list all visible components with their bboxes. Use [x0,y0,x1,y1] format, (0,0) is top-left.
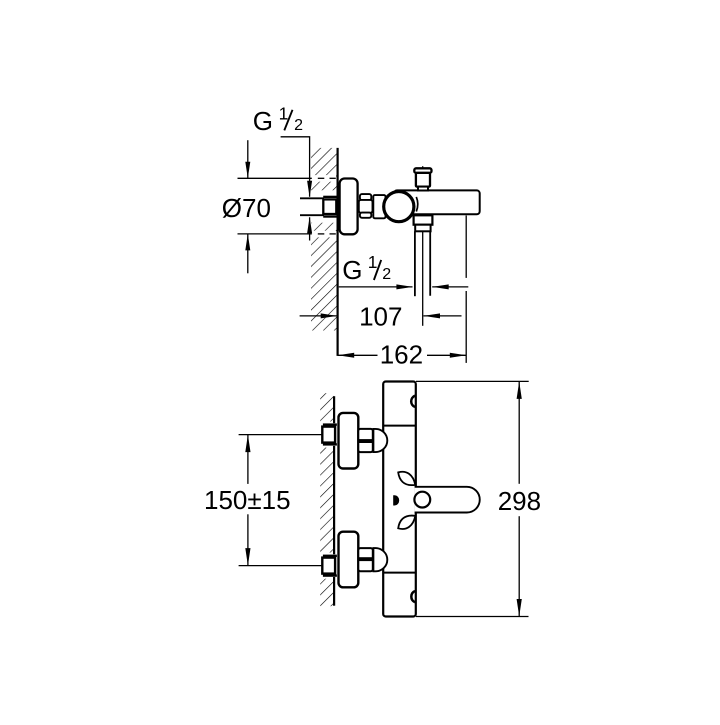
dimension 298 extension lines [416,380,529,382]
hex nut [358,429,373,452]
dimension 107 [300,315,337,317]
handle hub wing upper [398,472,415,485]
svg-text:298: 298 [498,486,541,516]
svg-text:G: G [253,106,273,136]
union flange bottom [323,215,337,217]
body collar arc detail [416,197,418,212]
svg-text:150±15: 150±15 [204,485,291,515]
union nut square (side view) [323,199,336,214]
lever button circle [414,492,430,508]
svg-text:1: 1 [279,103,289,123]
bottom cap screw arc [411,591,415,602]
hatch clearance around supply pipe [300,190,337,222]
diverter knob tick [422,166,424,168]
dimension Ø70 line with arrows [247,140,249,273]
hatch clearance around top union [319,422,337,448]
hatch clearance around lower extension line [311,231,336,238]
shower outlet nipple [415,225,430,232]
union flanges [323,423,337,425]
wall face line [337,148,339,356]
supply pipe (side view) [300,197,324,199]
thermostat handle (circle) [384,192,414,222]
dimension 298 line [518,382,520,484]
hose centre extension line [422,231,424,325]
wall hatching (front view) [320,393,333,606]
check valve dome [373,429,387,452]
faucet body (front view) [383,382,416,617]
hatch clearance around bottom union [319,553,337,579]
wall face line (front view) [333,396,335,606]
dimension 150±15 extension lines [239,434,323,436]
collar behind thermostat handle [373,195,385,218]
hex connection nut (side view) [359,194,373,218]
top cap screw arc [411,396,415,407]
union square [322,427,335,443]
diverter knob cap [414,168,431,173]
handle hub wing lower [398,516,415,529]
dimension Ø70 extension line bottom (dash-dot through wall) [238,233,336,235]
svg-text:162: 162 [380,340,423,370]
dimension Ø70 extension line top (dash-dot through wall) [238,177,336,179]
svg-text:Ø70: Ø70 [222,193,271,223]
svg-text:1: 1 [368,252,378,272]
bottom supply union (front view, mirrored) [322,532,387,588]
diverter knob stem [418,187,428,191]
svg-text:2: 2 [382,266,391,283]
temperature mark [393,495,399,505]
escutcheon [339,413,359,469]
wall hatching (side view) [311,148,337,331]
hatch clearance around upper extension line [311,175,336,182]
dimension G1/2 hose line [339,286,413,288]
svg-text:107: 107 [359,302,402,332]
shower outlet block [414,215,433,224]
svg-text:G: G [342,255,362,285]
faucet body (side view) [394,190,480,214]
leader from G 1/2 label [281,137,310,197]
diverter knob body [416,173,430,187]
spout end extension line [465,216,467,278]
dimension line G1/2 lower arrow at pipe [309,217,311,240]
escutcheon (side view) [340,179,358,235]
union flange top [323,196,337,198]
body bottom divider [383,572,416,574]
top supply union (front view) [322,413,387,469]
shower hose [414,231,416,296]
dimension 162 [338,354,378,356]
body top divider [383,425,416,427]
svg-text:2: 2 [294,117,303,134]
lever handle [415,487,480,513]
dimension 150±15 line [247,435,249,484]
